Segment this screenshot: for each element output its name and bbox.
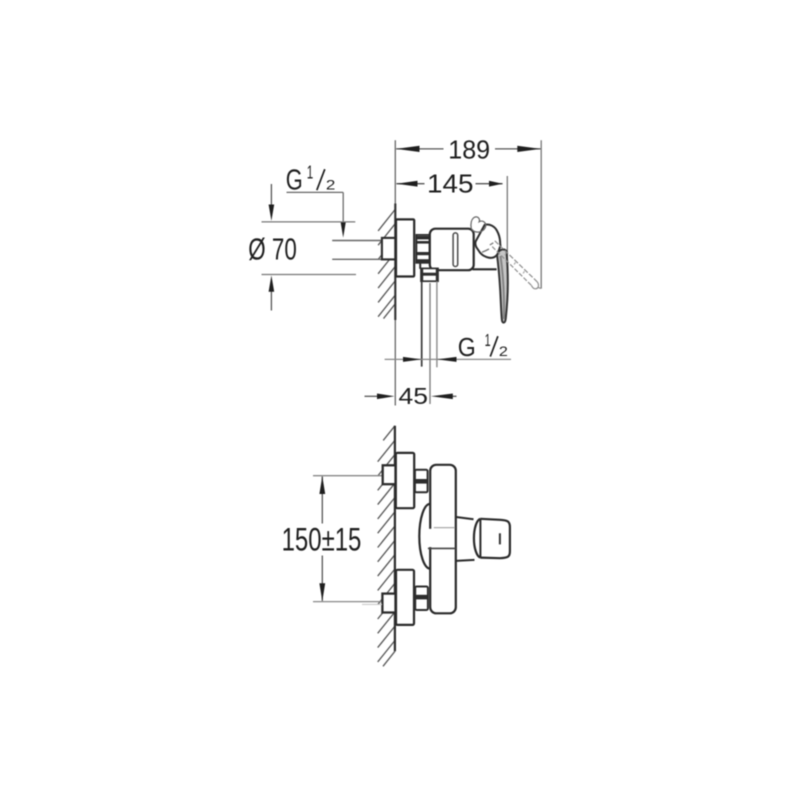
body column (front view): [430, 465, 456, 614]
dimension 145: [396, 168, 502, 198]
handle neck bottom edge (front view): [456, 560, 475, 561]
svg-text:2: 2: [499, 344, 508, 359]
knob detail dashes: [482, 243, 493, 252]
svg-text:1: 1: [307, 163, 314, 183]
wall surface line (side view, thick part): [394, 204, 396, 321]
svg-text:Ø 70: Ø 70: [248, 233, 296, 266]
dimension Ø70 lines: [262, 222, 357, 275]
dimension 189: [396, 135, 540, 165]
svg-text:145: 145: [427, 168, 474, 198]
body bottom ledge under handle: [473, 268, 497, 270]
handle grip (front view): [480, 519, 510, 558]
leader line G1/2 outlet: [385, 358, 511, 360]
body seam dark (front view): [428, 547, 456, 549]
outlet centre line / 45 extension: [429, 283, 431, 404]
dimension 150±15: [282, 476, 384, 602]
handle dome chord: [479, 519, 481, 557]
phantom lever hook (upper position tip): [471, 217, 486, 232]
Ø70 lower arrow: [269, 275, 275, 310]
top escutcheon flange (front view): [396, 453, 414, 508]
outlet pipe lines: [421, 281, 423, 366]
svg-text:1: 1: [485, 330, 491, 350]
wall extension line (side view, thin part): [394, 140, 396, 405]
outlet step: [419, 262, 421, 269]
arrow of G1/2 leader: [341, 222, 346, 238]
wall hatch (side view): [378, 210, 395, 319]
left bulge arc (front view): [419, 504, 430, 569]
bottom escutcheon flange (front view): [396, 570, 414, 625]
extension line right 189: [540, 140, 542, 288]
top supply nut (front view): [383, 465, 396, 484]
lever (side view, drawn before body/knob so they overlap it): [497, 249, 508, 322]
wall surface line (front view): [394, 426, 396, 652]
svg-text:G: G: [286, 164, 303, 196]
escutcheon flange (side view): [396, 219, 414, 276]
handle knob (side view): [475, 225, 500, 258]
Ø70 upper arrow: [269, 184, 275, 221]
label G 1/2 (top, supply thread): [286, 163, 336, 197]
shower outlet nut (side view): [421, 268, 438, 281]
svg-text:45: 45: [399, 383, 429, 409]
leader G1/2 top: [287, 192, 344, 224]
phantom lever (swung open position): [492, 241, 541, 289]
arrows G1/2 outlet: [403, 357, 422, 362]
union nut (side view): [416, 235, 429, 263]
svg-text:150±15: 150±15: [282, 522, 362, 558]
faint centre line at bottom supply (front view): [362, 603, 382, 605]
supply pipe stubs (side view): [332, 241, 383, 260]
top union nut (front view): [415, 470, 428, 493]
supply connection square in wall (side view): [382, 238, 395, 260]
handle dome arc (front view): [474, 519, 480, 558]
handle grip mark: [499, 533, 501, 544]
body seam light (front view): [434, 527, 455, 529]
label G 1/2 (outlet thread): [458, 330, 508, 362]
svg-text:2: 2: [326, 177, 336, 192]
svg-text:189: 189: [448, 135, 490, 165]
dimension 45: [365, 383, 457, 409]
handle neck top edge (front view): [456, 517, 474, 519]
svg-text:G: G: [458, 332, 476, 362]
lever inner shading streak: [501, 256, 505, 319]
bottom supply nut (front view): [382, 594, 395, 613]
cartridge body (side view): [430, 229, 474, 271]
body edge gap patch (front view): [429, 529, 432, 547]
outlet pipe right line: [436, 281, 438, 367]
extension line right 145: [506, 176, 508, 295]
bottom union nut (front view): [415, 587, 428, 611]
wall hatch (front view): [378, 426, 395, 667]
body cap seam (side view): [453, 233, 458, 267]
